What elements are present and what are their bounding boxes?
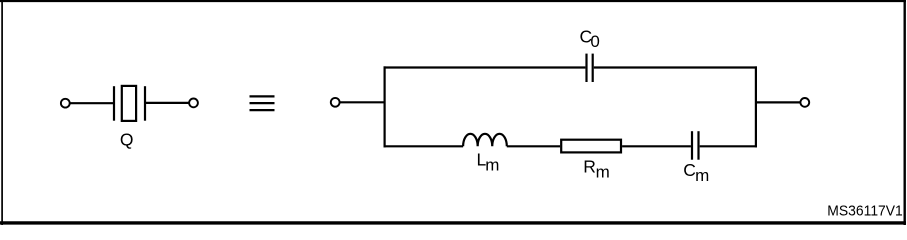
- svg-text:m: m: [485, 155, 499, 174]
- svg-text:m: m: [695, 166, 709, 185]
- svg-text:R: R: [583, 157, 596, 177]
- svg-text:0: 0: [590, 32, 599, 51]
- svg-text:m: m: [596, 163, 610, 182]
- svg-text:C: C: [683, 160, 696, 180]
- svg-text:Q: Q: [120, 130, 134, 150]
- svg-text:MS36117V1: MS36117V1: [827, 202, 903, 219]
